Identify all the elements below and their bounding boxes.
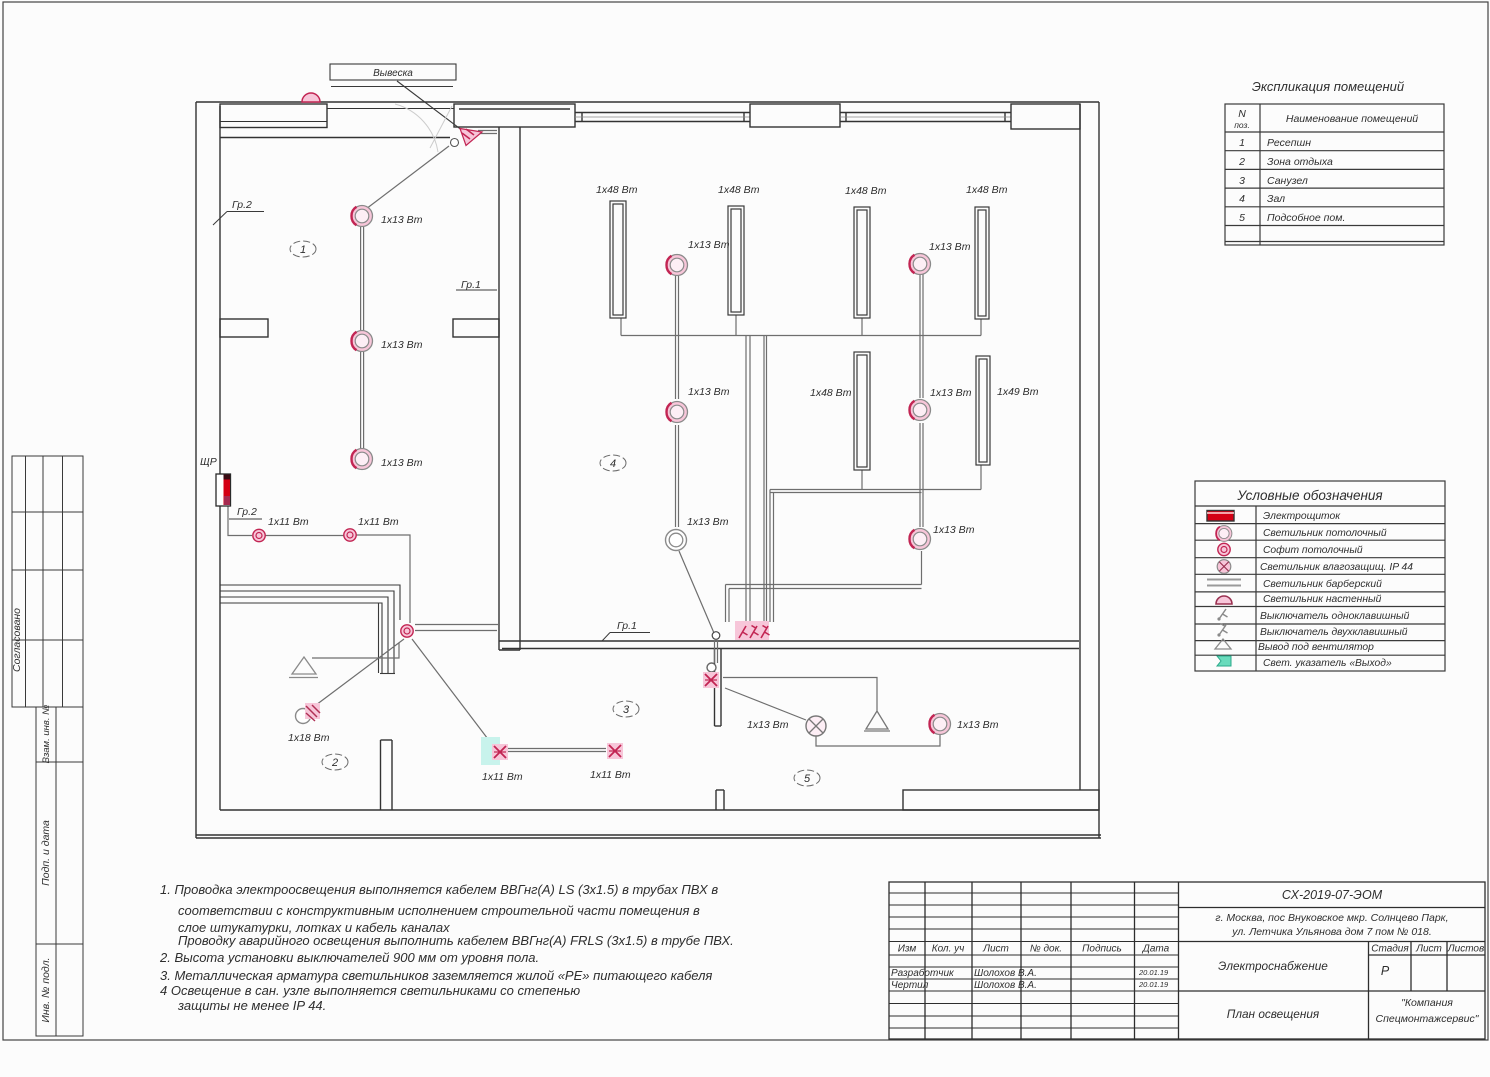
wall: bottom inner line (220, 809, 1099, 811)
legend symbol sofit (1218, 543, 1230, 555)
panel ShchR (216, 474, 231, 506)
fluorescent fixture A2 (728, 206, 744, 315)
wire risers to switch cluster (745, 336, 747, 628)
svg-text:СХ-2019-07-ЭОМ: СХ-2019-07-ЭОМ (1282, 888, 1383, 902)
svg-text:Разработчик: Разработчик (891, 967, 955, 979)
wire door light to room2 wall light (312, 639, 404, 708)
wire junction down through door (714, 640, 716, 663)
svg-text:Электроснабжение: Электроснабжение (1218, 959, 1328, 973)
wall: top exterior outer line (196, 101, 1099, 103)
legend symbol wall light (1216, 596, 1232, 604)
NOTES (159, 882, 734, 1013)
wire room1 diagonal entrance to light (366, 146, 449, 209)
svg-text:Гр.1: Гр.1 (617, 620, 637, 632)
PLAN WALLS (196, 102, 1101, 838)
wall: top-right corner pier (1011, 104, 1080, 129)
wire panel to Gr2 lights (228, 506, 252, 536)
svg-text:Светильник потолочный: Светильник потолочный (1263, 528, 1387, 539)
wall: left stub partition (220, 319, 268, 337)
svg-text:Электрощиток: Электрощиток (1263, 511, 1341, 522)
corridor light 1x11 #1 (481, 737, 500, 765)
room tag 4 (600, 455, 626, 471)
fluorescent fixture B1 (854, 352, 870, 470)
wire zal pendant column B (919, 274, 921, 398)
legend symbol exit sign (1217, 656, 1231, 666)
wire to vent room2 (312, 643, 399, 658)
svg-text:1х13 Вт: 1х13 Вт (688, 386, 730, 398)
room tag 5 (794, 770, 820, 786)
PLAN LABELS (200, 184, 1039, 783)
wall: top pier between entrance and window 1 (454, 104, 575, 127)
fluorescent fixture A4 (975, 207, 989, 319)
svg-text:1х13 Вт: 1х13 Вт (957, 719, 999, 731)
wall: room2 partition (380, 740, 382, 810)
svg-text:4: 4 (1239, 193, 1245, 205)
svg-text:3: 3 (1239, 175, 1245, 187)
svg-text:2: 2 (331, 757, 338, 769)
wall light room2 (296, 709, 311, 724)
wire san switch to room5 light (725, 688, 806, 720)
svg-text:5: 5 (804, 773, 811, 785)
LEFTBAR attribute strip (12, 456, 83, 1036)
wall: bottom-right interior block (903, 790, 1099, 810)
svg-text:План освещения: План освещения (1227, 1007, 1320, 1021)
wire to door light (356, 535, 410, 623)
door light room1 (401, 625, 413, 637)
wire horizontal channel to door (726, 584, 922, 586)
switch cluster at zal door (735, 621, 769, 640)
wall: top pier 2 (750, 104, 840, 127)
svg-text:Выключатель одноклавишный: Выключатель одноклавишный (1260, 611, 1410, 622)
svg-text:Проводку аварийного освещения: Проводку аварийного освещения выполнить … (178, 933, 734, 948)
svg-text:Шолохов В.А.: Шолохов В.А. (974, 980, 1037, 991)
svg-text:4: 4 (610, 458, 616, 470)
svg-text:1х11 Вт: 1х11 Вт (482, 771, 523, 783)
entrance corner lamp triangle (460, 129, 482, 146)
svg-text:Инв. № подл.: Инв. № подл. (40, 957, 52, 1022)
svg-text:г. Москва, пос Внуковское мкр: г. Москва, пос Внуковское мкр. Солнцево … (1215, 912, 1448, 924)
svg-text:1. Проводка электроосвещения: 1. Проводка электроосвещения выполняется… (160, 882, 718, 897)
svg-text:ул. Летчика Ульянова дом 7 пом: ул. Летчика Ульянова дом 7 пом № 018. (1231, 926, 1432, 938)
junction circle san-node (707, 663, 716, 672)
svg-text:Согласовано: Согласовано (11, 608, 23, 672)
svg-text:Условные обозначения: Условные обозначения (1236, 488, 1382, 503)
pendant zal A3 open (666, 530, 687, 551)
svg-text:Подпись: Подпись (1082, 944, 1122, 955)
svg-text:1х11 Вт: 1х11 Вт (358, 516, 399, 528)
wall: bottom stub near san-node (715, 790, 717, 810)
svg-text:Светильник барберский: Светильник барберский (1263, 578, 1382, 590)
svg-text:1х13 Вт: 1х13 Вт (381, 214, 423, 226)
svg-text:1: 1 (1239, 137, 1245, 149)
svg-text:1х48 Вт: 1х48 Вт (966, 184, 1008, 196)
pendant zal B2 (909, 400, 930, 421)
svg-text:1х48 Вт: 1х48 Вт (845, 185, 887, 197)
svg-text:1х13 Вт: 1х13 Вт (929, 241, 971, 253)
svg-text:поз.: поз. (1234, 120, 1250, 130)
wire room1 vertical chain (360, 226, 362, 331)
svg-text:Лист: Лист (982, 944, 1009, 955)
svg-text:Вывод под вентилятор: Вывод под вентилятор (1258, 642, 1374, 653)
room5 ceiling light (929, 714, 950, 735)
wire to fan san-node (723, 678, 877, 712)
wire between 1x11 lights (265, 535, 344, 537)
legend symbol ip44 light (1217, 560, 1231, 574)
wall: right exterior inner line (1079, 104, 1081, 790)
svg-text:Софит потолочный: Софит потолочный (1263, 544, 1363, 556)
wall: left exterior inner line (219, 106, 221, 810)
svg-text:N: N (1238, 108, 1246, 120)
svg-text:1х13 Вт: 1х13 Вт (381, 339, 423, 351)
wire door light to corridor switch (412, 639, 494, 747)
legend symbol ceiling light (1216, 526, 1232, 542)
svg-text:1х49 Вт: 1х49 Вт (997, 386, 1039, 398)
ceiling light room1 #3 (351, 449, 372, 470)
wall: right stub partition (453, 319, 499, 337)
svg-text:4 Освещение в сан. узле выпо: 4 Освещение в сан. узле выполняется свет… (160, 983, 580, 998)
svg-text:1: 1 (300, 244, 306, 256)
LEGEND (1195, 481, 1445, 671)
small circle node entrance (451, 139, 459, 147)
wall: bottom exterior double line (196, 834, 1101, 836)
svg-text:20.01.19: 20.01.19 (1138, 968, 1169, 977)
fluorescent fixture A3 (854, 207, 870, 318)
ceiling light room1 #2 (351, 331, 372, 352)
room tag 1 (290, 241, 316, 257)
svg-text:1х13 Вт: 1х13 Вт (381, 457, 423, 469)
svg-text:Зал: Зал (1267, 193, 1285, 205)
svg-text:Выключатель двухклавишный: Выключатель двухклавишный (1260, 627, 1408, 638)
room number ellipses (290, 241, 820, 786)
svg-text:Шолохов В.А.: Шолохов В.А. (974, 968, 1037, 979)
wall: left exterior outer line (195, 102, 197, 838)
svg-text:1х48 Вт: 1х48 Вт (596, 184, 638, 196)
sofit 1x11 #2 (344, 529, 356, 541)
svg-text:Свет. указатель «Выход»: Свет. указатель «Выход» (1263, 658, 1392, 669)
pendant zal A1 (666, 255, 687, 276)
svg-text:Экспликация помещений: Экспликация помещений (1252, 79, 1404, 94)
svg-text:Чертил: Чертил (891, 980, 929, 991)
wall: long horizontal wall y641 (499, 640, 1079, 642)
svg-text:1х13 Вт: 1х13 Вт (933, 524, 975, 536)
svg-text:Вывеска: Вывеска (373, 68, 413, 79)
legend symbol barber light (1207, 579, 1241, 581)
wire zal pendant column A (675, 275, 677, 399)
wire corridor lights (508, 748, 606, 750)
svg-text:1х48 Вт: 1х48 Вт (718, 184, 760, 196)
wire bus row2 fixtures double (770, 489, 981, 491)
entrance threshold lines (478, 130, 497, 132)
group labels (213, 199, 264, 225)
svg-text:2. Высота установки выключател: 2. Высота установки выключателей 900 мм … (159, 950, 539, 965)
svg-text:соответствии с конструктивны: соответствии с конструктивным исполнение… (178, 903, 700, 918)
svg-text:1х13 Вт: 1х13 Вт (688, 239, 730, 251)
svg-text:Санузел: Санузел (1267, 175, 1308, 187)
svg-text:1х48 Вт: 1х48 Вт (810, 387, 852, 399)
legend symbol switch 2 (1219, 624, 1228, 636)
wall: san-node door jamb vertical (714, 649, 716, 727)
svg-text:Изм: Изм (898, 944, 917, 955)
svg-text:1х11 Вт: 1х11 Вт (590, 769, 631, 781)
wire bus row1 fixtures (621, 335, 981, 337)
svg-text:защиты не менее IP 44.: защиты не менее IP 44. (177, 998, 326, 1013)
room tag 2 (322, 754, 348, 770)
svg-text:Дата: Дата (1142, 944, 1170, 955)
svg-text:1х11 Вт: 1х11 Вт (268, 516, 309, 528)
entrance wall lamp arc (302, 93, 320, 102)
pendant zal A2 (666, 402, 687, 423)
svg-text:1х13 Вт: 1х13 Вт (687, 516, 729, 528)
svg-text:Листов: Листов (1447, 944, 1484, 955)
svg-text:Спецмонтажсервис": Спецмонтажсервис" (1376, 1013, 1480, 1025)
svg-text:Зона отдыха: Зона отдыха (1267, 156, 1333, 168)
san-node light X (703, 672, 719, 688)
corridor light 1x11 #2 (607, 743, 623, 759)
vent triangle san-node (866, 711, 888, 729)
wire door light to wall (415, 624, 499, 626)
fluorescent fixture A1 (610, 201, 990, 470)
svg-text:3: 3 (623, 704, 630, 716)
window 2 sill lines (840, 112, 1011, 114)
svg-text:Стадия: Стадия (1371, 944, 1409, 955)
wall: interior vertical wall room1/room4 (498, 127, 500, 650)
svg-text:1х18 Вт: 1х18 Вт (288, 732, 330, 744)
vent triangle room2 (292, 657, 316, 674)
wall: right exterior outer line (1098, 102, 1100, 838)
svg-text:Взам. инв. №: Взам. инв. № (41, 705, 52, 764)
legend symbol switch 1 (1219, 609, 1228, 619)
svg-text:Наименование помещений: Наименование помещений (1286, 113, 1418, 125)
room5 light ip44 (806, 716, 826, 736)
TITLE BLOCK (889, 882, 1485, 1039)
svg-text:20.01.19: 20.01.19 (1138, 980, 1169, 989)
svg-text:Р: Р (1381, 964, 1390, 978)
svg-text:Лист: Лист (1415, 944, 1442, 955)
svg-text:Подп. и дата: Подп. и дата (40, 820, 52, 886)
svg-text:2: 2 (1238, 156, 1245, 168)
pendant zal B1 (909, 254, 930, 275)
legend symbol panel (1207, 511, 1234, 522)
ceiling light room1 #1 (351, 206, 372, 227)
window 1 sill lines (575, 112, 750, 114)
wire room5 lights U (816, 734, 940, 746)
room tag 3 (613, 701, 639, 717)
svg-text:Подсобное пом.: Подсобное пом. (1267, 212, 1345, 224)
svg-text:№ док.: № док. (1030, 944, 1062, 955)
sofit 1x11 #1 (253, 529, 265, 541)
wall: room1 inner ceiling line (220, 137, 450, 139)
svg-text:Светильник настенный: Светильник настенный (1263, 594, 1382, 605)
svg-text:Гр.2: Гр.2 (232, 199, 252, 211)
svg-text:ЩР: ЩР (200, 456, 217, 468)
svg-text:5: 5 (1239, 212, 1245, 224)
pendant zal B3 (909, 529, 930, 550)
svg-text:1х13 Вт: 1х13 Вт (930, 387, 972, 399)
svg-text:Гр.2: Гр.2 (237, 506, 257, 518)
legend symbol vent (1215, 639, 1231, 649)
svg-text:3. Металлическая арматура свет: 3. Металлическая арматура светильников з… (160, 968, 712, 983)
junction circle on wall (712, 632, 720, 640)
fluorescent fixture B2 (976, 356, 990, 465)
svg-text:Кол. уч: Кол. уч (932, 944, 965, 955)
svg-text:"Компания: "Компания (1401, 997, 1453, 1009)
svg-text:1х13 Вт: 1х13 Вт (747, 719, 789, 731)
svg-text:Ресепшн: Ресепшн (1267, 137, 1311, 149)
EXPLICATION TABLE (1225, 79, 1444, 245)
wall: top-left pier (220, 104, 327, 128)
svg-text:Светильник влагозащищ. IP 44: Светильник влагозащищ. IP 44 (1260, 562, 1413, 573)
reception counter L-shape (220, 585, 400, 674)
svg-text:Гр.1: Гр.1 (461, 279, 481, 291)
left grid verticals (924, 882, 926, 1039)
sign box Вывеска (330, 64, 463, 152)
